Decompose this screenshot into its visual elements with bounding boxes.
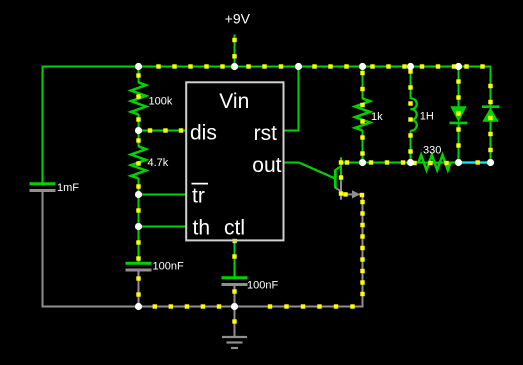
current dots top bus bbox=[156, 64, 484, 68]
transistor Q1 NPN bbox=[299, 157, 363, 200]
current dots dis wire bbox=[148, 128, 183, 132]
current dots 1k branch bbox=[360, 71, 364, 156]
inductor L1 1H (410.5,66.5)-(410.5,162.5) bbox=[411, 67, 434, 163]
U1 pin tr with overline bbox=[192, 184, 209, 208]
svg-text:100nF: 100nF bbox=[153, 261, 184, 273]
resistor R2 4.7k (138.5,130.5)-(138.5,194.5) bbox=[131, 131, 169, 195]
svg-text:330: 330 bbox=[423, 145, 441, 157]
resistor R4 330 (410.5,162.5)-(458.5,162.5) bbox=[411, 145, 459, 171]
current dots D2 branch bbox=[488, 84, 492, 152]
wire 4.7k node down (138.5,194.5)-(138.5,226.5) bbox=[138, 195, 140, 227]
U1 label Vin bbox=[219, 90, 249, 113]
svg-text:tr: tr bbox=[192, 185, 205, 208]
svg-text:dis: dis bbox=[190, 121, 217, 144]
current dots 1H branch bbox=[408, 69, 412, 153]
current dots rail bbox=[232, 38, 236, 59]
svg-text:1mF: 1mF bbox=[57, 182, 79, 194]
svg-text:ctl: ctl bbox=[224, 216, 245, 239]
wire dis (138.5,130.5)-(186,130.5) bbox=[139, 130, 187, 132]
rail +9V supply at (234.5,34.5) bbox=[225, 11, 251, 67]
wire bottom bus (42.5,306.5)-(362.5,306.5) bbox=[42, 306, 364, 308]
resistor R3 1k (362.5,66.5)-(362.5,162.5) bbox=[355, 67, 383, 163]
wire rst riser (298.5,66.5)-(298.5,130.5)-(283.5,130.5) bbox=[284, 66, 300, 131]
current dots transistor bbox=[339, 160, 364, 197]
svg-text:100k: 100k bbox=[149, 95, 173, 107]
capacitor C2 100nF (138.5,263)-(138.5,270) bbox=[126, 227, 184, 307]
current dots mid bus bbox=[345, 160, 405, 164]
current dots th segment bbox=[136, 208, 140, 296]
current dots emitter drop bbox=[360, 200, 364, 296]
wire selected cyan (458.5,162.5)-(490.5,162.5) bbox=[459, 161, 491, 163]
current dots ctl branch bbox=[232, 254, 236, 323]
svg-text:out: out bbox=[252, 154, 281, 177]
capacitor C1 1mF (42.5,183.5)-(42.5,190.5) bbox=[30, 182, 80, 307]
diode D2 LED reversed (490.5,66.5)-(490.5,162.5) bbox=[482, 67, 500, 163]
svg-text:4.7k: 4.7k bbox=[148, 157, 169, 169]
current dots D1 branch bbox=[456, 79, 460, 147]
op-amp U1 555 timer chip box bbox=[186, 82, 283, 240]
wire left branch down to C1 (42.5,66.5)-(42.5,183.5) bbox=[42, 66, 44, 185]
svg-text:th: th bbox=[193, 216, 211, 239]
current dots bottom bus left bbox=[153, 304, 222, 308]
diode D1 LED (458.5,66.5)-(458.5,162.5) bbox=[450, 67, 468, 163]
svg-text:Vin: Vin bbox=[219, 90, 249, 113]
current dots bottom bus right bbox=[268, 304, 355, 308]
svg-text:rst: rst bbox=[254, 122, 277, 145]
current dots 4.7k branch bbox=[136, 138, 140, 188]
current dots 100k branch bbox=[136, 73, 140, 121]
current dot cyan wire bbox=[476, 160, 480, 164]
wire top bus 9V rail (42.5,66.5)-(490.5,66.5) bbox=[42, 66, 492, 68]
U1 pin ctl bbox=[224, 216, 245, 243]
svg-text:1k: 1k bbox=[371, 111, 383, 123]
U1 pin out bbox=[252, 154, 281, 177]
current dots 330 row bbox=[412, 161, 448, 165]
wire out pin to transistor base (283.5,162.5)-(298.5,162.5) bbox=[284, 162, 300, 164]
resistor R1 100k (138.5,66.5)-(138.5,130.5) bbox=[131, 67, 173, 131]
wire mid bus out node (341,162.5)-(458.5,162.5) bbox=[341, 162, 459, 164]
capacitor C3 100nF ctl (234.5,277.5)-(234.5,284.5) bbox=[222, 241, 279, 307]
ground at (234.5,306.5) bbox=[222, 307, 247, 349]
svg-text:+9V: +9V bbox=[225, 11, 251, 27]
junction nodes bbox=[135, 63, 494, 310]
U1 pin dis bbox=[190, 121, 217, 144]
U1 pin rst bbox=[254, 122, 277, 145]
svg-text:1H: 1H bbox=[420, 111, 434, 123]
wire tr (138.5,194.5)-(186,194.5) bbox=[139, 194, 187, 196]
svg-text:100nF: 100nF bbox=[247, 280, 278, 292]
wire emitter drop (362.5,194.4)-(362.5,306.5) bbox=[362, 194, 364, 306]
wire th (138.5,226.5)-(186,226.5) bbox=[139, 226, 187, 228]
U1 pin th bbox=[193, 216, 211, 239]
